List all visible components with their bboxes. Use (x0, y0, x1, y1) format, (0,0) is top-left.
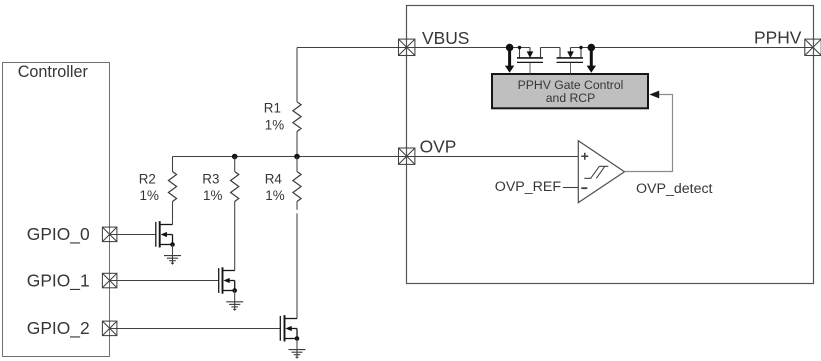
label OVP_detect (636, 181, 713, 197)
wire R2 top stub (172, 157, 174, 172)
node dot Q4 source (518, 46, 521, 49)
svg-text:GPIO_1: GPIO_1 (27, 270, 90, 290)
junction dot VBUS right (588, 44, 596, 52)
label GPIO_1 (27, 270, 90, 290)
svg-text:PPHV: PPHV (754, 28, 802, 48)
svg-text:1%: 1% (265, 188, 284, 203)
thick arrow VBUS left into block (505, 48, 514, 73)
wire GPIO_0 gate net (110, 234, 156, 236)
wire Q2 source drop (234, 291, 236, 302)
wire R2 bottom to Q1 drain (172, 202, 174, 225)
transistor Q3 (280, 315, 297, 341)
resistor R3 label (202, 172, 222, 203)
resistor R1 (293, 102, 301, 132)
resistor R4 (293, 172, 301, 202)
wire OVP_detect feedback to block (625, 95, 673, 172)
svg-text:GPIO_2: GPIO_2 (27, 318, 90, 338)
pin GPIO_0 (102, 227, 117, 242)
gray block PPHV Gate Control and RCP (492, 74, 648, 108)
wire OVP horizontal net (173, 156, 579, 158)
svg-text:OVP_REF: OVP_REF (495, 179, 562, 195)
pin VBUS (399, 39, 415, 55)
op-amp U1 comparator (578, 141, 624, 203)
ground Q3 (289, 350, 306, 359)
svg-text:R3: R3 (202, 172, 219, 187)
wire Q1 source drop (172, 245, 174, 256)
node dot R3 tap (232, 154, 238, 160)
label PPHV (754, 28, 802, 48)
label OVP_REF (495, 179, 562, 195)
resistor R3 (231, 172, 239, 202)
wire R1 top feed (296, 48, 298, 102)
wire GPIO_1 gate net (110, 280, 219, 282)
transistor Q4 (left pass FET) (517, 48, 543, 74)
main device box (407, 6, 814, 284)
controller box (3, 63, 110, 357)
svg-text:VBUS: VBUS (422, 28, 469, 48)
svg-text:OVP_detect: OVP_detect (636, 181, 713, 197)
arrow feedback into block (649, 91, 659, 99)
node dot Q3 source-body (295, 336, 300, 341)
label OVP (420, 136, 457, 156)
wire Q3 source drop (296, 339, 298, 350)
wire R3 bottom to Q2 drain (234, 202, 236, 271)
transistor Q1 (156, 221, 173, 247)
svg-text:R2: R2 (139, 172, 156, 187)
node dot Q1 source-body (170, 242, 175, 247)
gray block label (518, 78, 624, 105)
wire R4 top stub (296, 157, 298, 172)
wire R4 bottom to Q3 drain (296, 202, 298, 319)
pin GPIO_2 (102, 321, 117, 336)
wire VBUS rail left segment (297, 47, 530, 49)
svg-text:1%: 1% (140, 188, 159, 203)
wire GPIO_2 gate net (110, 328, 280, 330)
pin GPIO_1 (102, 273, 117, 288)
wire R1 bottom to node (296, 132, 298, 157)
node dot Q2 source-body (232, 288, 237, 293)
pin OVP (399, 148, 415, 164)
svg-text:1%: 1% (265, 117, 284, 132)
transistor Q5 (right pass FET) (557, 48, 584, 74)
svg-text:and RCP: and RCP (546, 91, 595, 105)
wire VBUS rail mid segment (common drain link) (541, 47, 561, 49)
controller label (18, 63, 89, 81)
junction dot VBUS left (506, 44, 514, 52)
ground Q1 (164, 256, 181, 265)
svg-text:R4: R4 (265, 172, 283, 187)
thick arrow VBUS right into block (587, 48, 596, 73)
label GPIO_2 (27, 318, 90, 338)
node dot R1-R4 (294, 154, 300, 160)
resistor R4 label (265, 172, 285, 203)
resistor R2 label (139, 172, 159, 203)
node dot Q5 source (579, 46, 582, 49)
svg-text:OVP: OVP (420, 136, 457, 156)
label VBUS (422, 28, 469, 48)
svg-text:Controller: Controller (18, 63, 89, 81)
svg-text:1%: 1% (203, 188, 222, 203)
resistor R2 (168, 172, 176, 202)
label GPIO_0 (27, 224, 90, 244)
svg-text:GPIO_0: GPIO_0 (27, 224, 90, 244)
ground Q2 (226, 302, 243, 311)
pin PPHV (805, 39, 821, 55)
wire OVP_REF stub to inverting input (563, 187, 578, 189)
wire R3 top stub (234, 157, 236, 172)
svg-text:R1: R1 (264, 101, 281, 116)
wire VBUS rail right segment (571, 47, 814, 49)
transistor Q2 (219, 267, 235, 293)
resistor R1 label (264, 101, 284, 133)
